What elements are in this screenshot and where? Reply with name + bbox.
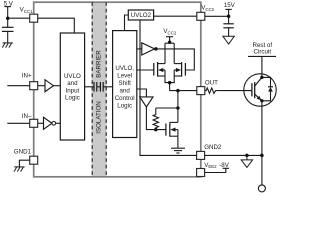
svg-text:VCC1: VCC1	[20, 6, 33, 13]
wire Q3 source to ground	[177, 136, 179, 148]
svg-text:IN+: IN+	[22, 72, 32, 79]
wire control block to Q1 gate	[137, 69, 154, 71]
node: OUT branch	[176, 89, 180, 93]
wire caps to control block	[103, 86, 112, 88]
capacitor C2 (isolation)	[94, 82, 97, 92]
wire IN- stub	[7, 122, 29, 124]
node: 15V junction	[227, 15, 231, 19]
buffer U2 (IN+)	[45, 80, 53, 92]
node: clamp resistor tap	[176, 106, 180, 110]
capacitor C3 (isolation)	[100, 82, 103, 92]
pin GND1	[30, 156, 38, 164]
svg-text:BARRIER: BARRIER	[96, 50, 103, 78]
ground (earth) left of C1	[2, 43, 13, 48]
diode D1 (freewheel)	[262, 77, 273, 100]
svg-text:GND1: GND1	[14, 148, 32, 155]
resistor R1 (gate resistor)	[205, 88, 218, 93]
wire between isolation caps	[97, 86, 101, 88]
svg-text:UVLO2: UVLO2	[131, 12, 152, 19]
svg-text:Logic: Logic	[117, 103, 132, 110]
svg-text:5 V: 5 V	[4, 1, 14, 8]
buffer U4 (high side drive)	[142, 43, 155, 55]
wire IN+ pin to buffer	[38, 85, 45, 87]
svg-text:UVLO: UVLO	[64, 73, 81, 80]
wire UVLO2 down to GND2 rail	[140, 20, 197, 155]
node: buffer output	[154, 47, 158, 51]
D1 triangle	[268, 87, 273, 92]
wire UVLO block to isolation caps	[85, 86, 94, 88]
svg-text:15V: 15V	[224, 2, 236, 9]
svg-text:VCC2: VCC2	[201, 5, 214, 12]
wire VEE2 to -8V terminal	[205, 168, 229, 172]
wire VCC2 pin to 15V node	[205, 15, 229, 17]
transistor Q3 (Miller clamp)	[166, 122, 178, 136]
bubble of U3	[52, 121, 56, 125]
pin IN+	[30, 82, 38, 90]
terminal circle	[258, 185, 265, 192]
barrier right dashed line	[105, 2, 107, 177]
ground (earth) GND1	[14, 167, 25, 172]
Q3 body arrow	[170, 128, 175, 132]
capacitor C1	[2, 27, 14, 43]
wire GND2 to emitter node	[205, 154, 262, 156]
wire GND1 to ground	[19, 160, 29, 167]
svg-text:Control: Control	[115, 95, 135, 102]
svg-text:ISOLATION: ISOLATION	[96, 101, 103, 134]
node: VCC2 rail junction	[168, 40, 172, 44]
capacitor C4	[223, 24, 233, 37]
svg-text:Input: Input	[66, 87, 80, 94]
ground (triangle) of C4	[223, 36, 234, 44]
ground (triangle) at GND2	[241, 155, 252, 167]
node: clamp gate node	[154, 128, 158, 132]
isolation barrier strip	[92, 3, 107, 176]
wire UVLO2 to VCC2 pin	[154, 15, 197, 17]
svg-text:and: and	[67, 80, 78, 87]
pin IN-	[30, 119, 38, 127]
svg-text:UVLO,: UVLO,	[115, 65, 134, 72]
wire IN+ stub	[7, 85, 29, 87]
Q4 emitter arrow	[257, 96, 262, 100]
wire buffer to UVLO block	[53, 85, 60, 87]
wire emitter down	[261, 101, 263, 185]
svg-text:OUT: OUT	[205, 79, 218, 86]
inverting buffer U3 (IN-)	[44, 117, 52, 129]
svg-text:VEE2: VEE2	[204, 162, 217, 169]
node: VCC1 junction	[6, 16, 10, 20]
block: UVLO Level Shift and Control Logic	[113, 31, 137, 138]
wire 5V to VCC1 pin	[8, 17, 30, 19]
wire IN- pin to buffer	[38, 122, 44, 124]
transistor Q4 (IGBT)	[244, 74, 276, 106]
wire buffer output to Q2 gate	[155, 49, 195, 70]
node: emitter	[260, 99, 263, 102]
pin VCC1	[30, 14, 38, 22]
wire OUT branch down to clamp	[177, 91, 179, 123]
wire control block to buffer U4	[137, 48, 142, 50]
pin VEE2	[197, 169, 205, 177]
Rest of Circuit label	[252, 42, 272, 55]
wire bubble to UVLO block	[56, 122, 61, 124]
pin GND2	[197, 151, 205, 159]
block UVLO2	[128, 10, 153, 20]
wire collector up	[261, 56, 263, 77]
buffer U5 (clamp drive, down)	[140, 97, 153, 107]
svg-text:Shift: Shift	[119, 80, 132, 87]
5V supply terminal	[4, 7, 11, 28]
pin OUT	[197, 87, 205, 95]
node: source join	[168, 81, 172, 85]
node: collector	[260, 76, 263, 79]
wire FET sources to OUT node	[165, 76, 197, 91]
wire tap to resistor R2	[156, 107, 178, 109]
transistor Q2 (pull-up right)	[174, 62, 185, 77]
wire VCC2 rail to FET drains	[165, 43, 174, 63]
svg-text:and: and	[120, 88, 131, 95]
Q2 body arrow	[176, 68, 181, 72]
IC boundary U1	[34, 2, 201, 177]
ground (internal GND2 symbol)	[171, 148, 185, 153]
wire R1 to IGBT gate	[218, 90, 252, 92]
node: GND2 ground tap	[245, 154, 249, 158]
block: UVLO and Input Logic	[60, 33, 84, 140]
rest-of-circuit terminal bar	[248, 55, 276, 57]
Q1 body arrow	[158, 68, 163, 72]
wire control block to clamp buffer	[137, 89, 147, 97]
15V supply terminal	[225, 9, 231, 23]
resistor R2 (clamp divider)	[153, 108, 158, 130]
node: emitter junction	[260, 154, 264, 158]
svg-text:Logic: Logic	[65, 95, 80, 102]
VCC2 internal terminal	[166, 37, 173, 44]
pin VCC2	[197, 12, 205, 20]
wire UVLO2 to control block top	[125, 15, 129, 31]
svg-text:Circuit: Circuit	[254, 49, 272, 56]
barrier left dashed line	[91, 2, 93, 177]
svg-text:Level: Level	[117, 73, 132, 80]
svg-text:VCC2: VCC2	[163, 28, 176, 35]
svg-text:GND2: GND2	[204, 144, 222, 151]
transistor Q1 (pull-up left)	[154, 62, 165, 77]
wire U5 to clamp gate	[146, 107, 166, 130]
wire VCC1 to UVLO block	[38, 18, 75, 33]
